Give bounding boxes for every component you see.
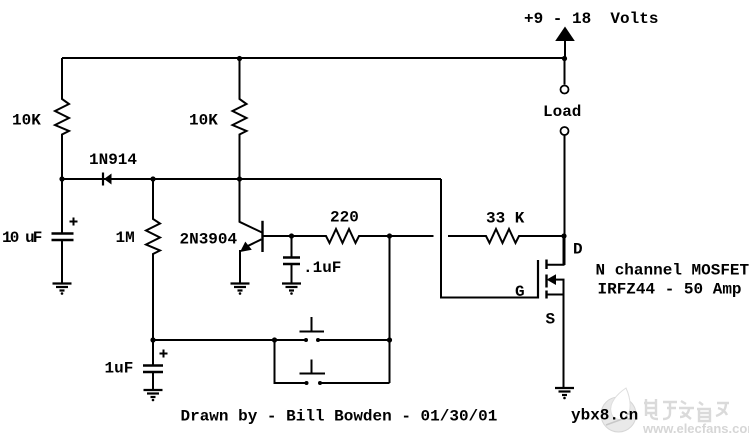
node junction rail2 left [59,176,64,181]
svg-text:10K: 10K [189,112,218,130]
capacitor C3 1uF [143,340,163,390]
transistor Q1 2N3904 [240,179,263,283]
node junction branch split [272,337,277,342]
svg-text:33 K: 33 K [486,210,525,228]
svg-text:1N914: 1N914 [89,151,137,169]
node junction at x=389.5 on base rail [387,233,392,238]
power supply arrow +9-18V [555,27,575,59]
node junction base / C2 [289,233,294,238]
node junction 1uF / switch rail [150,337,155,342]
wire switch rail y=340 [153,339,390,341]
wire from base junction down to switch rail [389,236,391,383]
svg-text:1uF: 1uF [105,360,134,378]
watermark logo circle elecfans [601,388,636,432]
svg-text:10K: 10K [12,112,41,130]
node junction right switch rail [387,337,392,342]
svg-text:IRFZ44 - 50 Amp: IRFZ44 - 50 Amp [598,281,742,299]
node junction rail2 at 1M [150,176,155,181]
capacitor C1 10uF [52,179,74,283]
svg-text:D: D [573,241,583,259]
diode D1 1N914 [103,173,112,186]
capacitor C2 .1uF [283,236,300,283]
resistor R2 10K middle [233,58,247,179]
resistor R3 1M [146,179,160,340]
Load terminal circle bottom [561,127,569,135]
plus sign C1 [70,218,78,226]
watermark chinese characters [644,399,729,421]
wire gate feed: down at x=441 then right to gate [441,179,538,298]
plus sign C3 [160,350,168,358]
svg-text:10 uF: 10 uF [2,229,42,247]
wire rail to 33K after hop [448,229,564,243]
node junction rail2 at R2 [237,176,242,181]
svg-text:ybx8.cn: ybx8.cn [571,407,638,425]
ground under MOSFET source [555,388,574,399]
svg-text:220: 220 [330,209,359,227]
switch S1 pushbutton [300,317,325,342]
wire lower switch branch [275,340,307,383]
svg-text:G: G [515,283,525,301]
node junction top rail / +V [562,56,567,61]
ground under C2 [282,284,301,295]
ground under C3 [144,390,163,401]
node junction drain / 33K [561,233,566,238]
svg-text:www.elecfans.com: www.elecfans.com [642,421,749,436]
svg-text:Drawn by - Bill Bowden - 01/30: Drawn by - Bill Bowden - 01/30/01 [181,408,498,426]
wire top rail from left resistor to +V stem [62,57,564,59]
svg-text:.1uF: .1uF [303,259,341,277]
wire +V stem down to Load terminal [564,58,566,85]
svg-text:1M: 1M [116,229,135,247]
wire base rail y=236 with resistor R4 220 [263,229,434,243]
MOSFET Q2 IRFZ44 [538,236,565,388]
wire lower branch right side [320,382,390,384]
wire second rail y=179 [62,178,441,180]
svg-text:S: S [546,311,556,329]
Load terminal circle top [561,86,569,94]
svg-text:+9 - 18 Volts: +9 - 18 Volts [524,10,658,28]
svg-text:2N3904: 2N3904 [180,231,238,249]
svg-text:Load: Load [543,103,581,121]
ground under C1 [53,284,72,295]
switch S2 pushbutton [300,360,326,386]
wire load bottom to MOSFET drain [564,136,566,266]
node junction top rail / R2 [237,56,242,61]
ground under Q1 emitter [231,284,250,295]
svg-text:N channel MOSFET: N channel MOSFET [596,262,749,280]
resistor R1 10K left [55,58,69,179]
